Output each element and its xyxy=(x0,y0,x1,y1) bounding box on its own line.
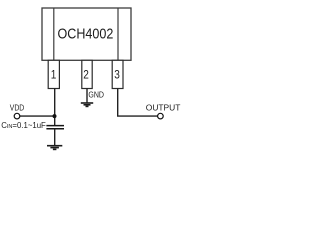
svg-text:OUTPUT: OUTPUT xyxy=(146,103,181,112)
wire: corner to OUTPUT terminal xyxy=(117,115,158,117)
wire: capacitor to ground xyxy=(54,129,56,145)
svg-text:GND: GND xyxy=(88,89,104,99)
wire: VDD terminal to node A xyxy=(20,115,56,117)
VDD terminal circle xyxy=(14,113,20,119)
svg-text:2: 2 xyxy=(83,68,89,82)
wire: pin 1 down to VDD node and capacitor xyxy=(54,88,56,125)
pin 3 lead xyxy=(112,60,123,88)
OUTPUT terminal circle xyxy=(158,113,164,119)
svg-text:OCH4002: OCH4002 xyxy=(58,26,114,43)
svg-text:VDD: VDD xyxy=(10,103,25,112)
svg-text:1: 1 xyxy=(51,68,57,82)
IC body inner right line xyxy=(117,8,119,60)
capacitor Cin top plate xyxy=(46,125,64,127)
pin 2 lead xyxy=(82,60,92,88)
node A junction dot xyxy=(53,114,57,118)
ground symbol below capacitor xyxy=(47,146,62,150)
IC U1 body outline xyxy=(42,8,131,60)
pin 1 lead xyxy=(48,60,59,88)
IC body inner left line xyxy=(53,8,55,60)
wire: pin 2 down to ground xyxy=(86,88,88,102)
svg-text:3: 3 xyxy=(114,68,120,82)
ground symbol below pin 2 xyxy=(81,103,93,106)
capacitor Cin bottom plate xyxy=(46,128,64,130)
wire: pin 3 down xyxy=(117,88,119,116)
